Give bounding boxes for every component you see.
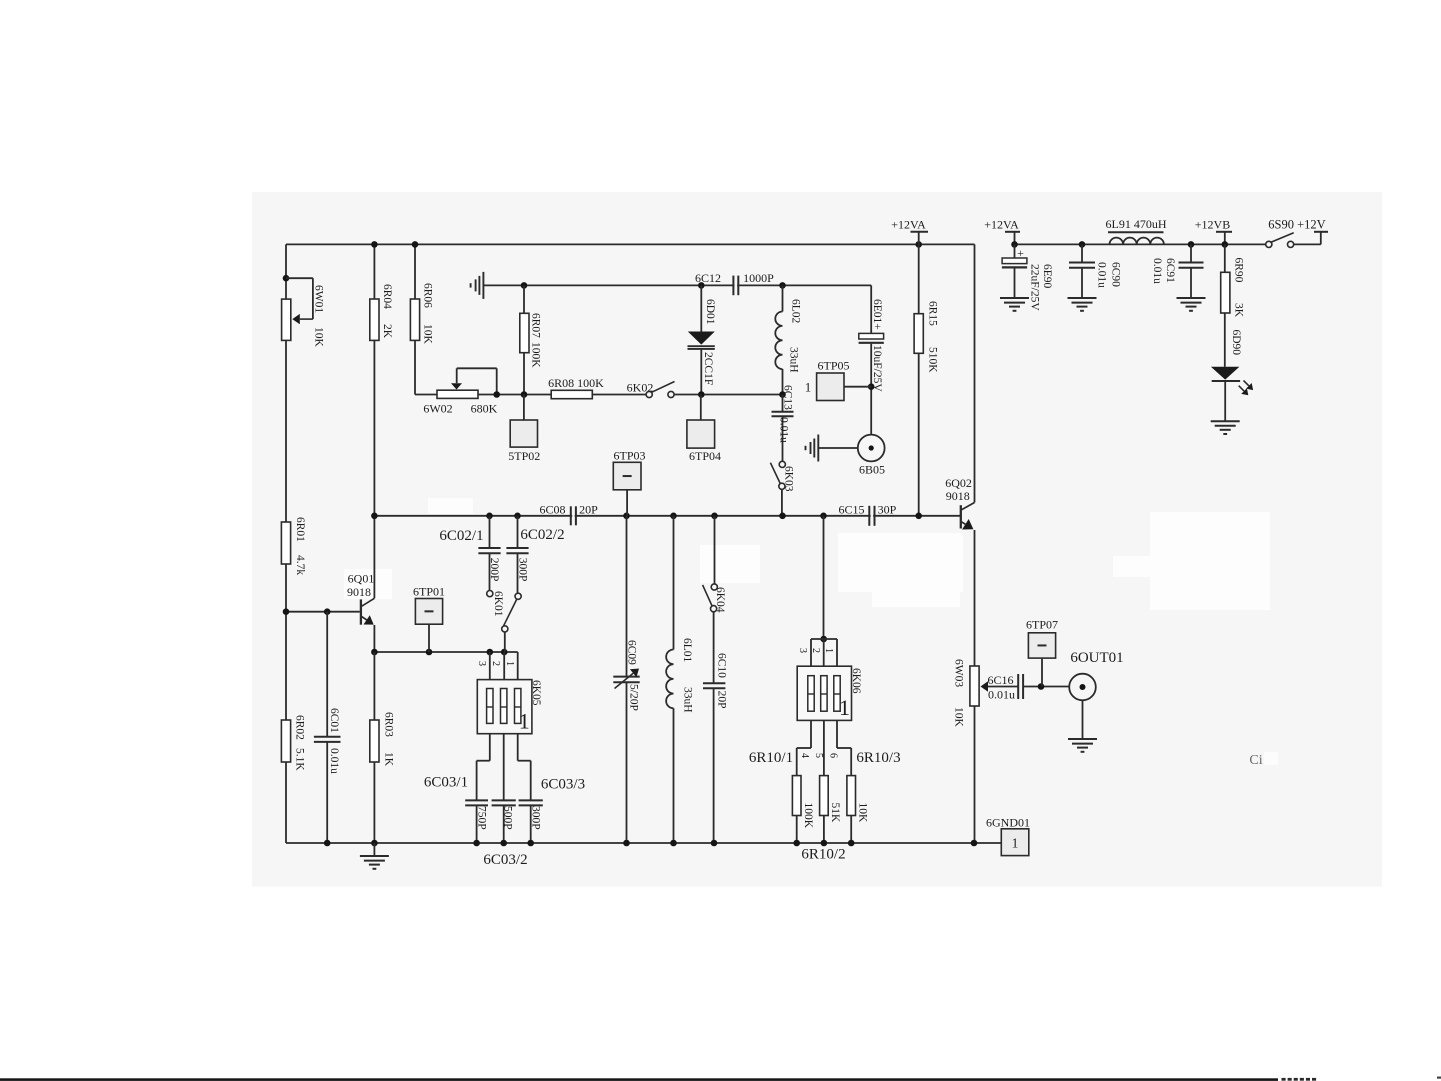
svg-text:10K: 10K	[952, 707, 964, 728]
svg-text:Ci: Ci	[1249, 753, 1262, 768]
svg-text:6R02: 6R02	[294, 715, 306, 740]
svg-text:22uF/25V: 22uF/25V	[1028, 264, 1040, 311]
svg-text:6Q01: 6Q01	[348, 572, 375, 586]
svg-text:6K01: 6K01	[492, 591, 504, 617]
svg-text:6C08: 6C08	[539, 503, 565, 517]
svg-text:6TP04: 6TP04	[689, 449, 721, 463]
svg-text:6K02: 6K02	[627, 381, 654, 395]
svg-text:0.01u: 0.01u	[988, 688, 1015, 702]
svg-text:1: 1	[823, 648, 834, 653]
svg-text:510K: 510K	[927, 347, 939, 373]
svg-text:+12VA: +12VA	[891, 218, 926, 232]
svg-text:5TP02: 5TP02	[508, 449, 540, 463]
svg-text:33uH: 33uH	[788, 347, 800, 373]
svg-text:6C13: 6C13	[782, 385, 794, 410]
svg-text:6Q02: 6Q02	[945, 476, 972, 490]
svg-text:2: 2	[810, 648, 821, 653]
svg-text:1000P: 1000P	[743, 271, 774, 285]
svg-text:6W01: 6W01	[313, 285, 325, 313]
svg-text:6C01: 6C01	[328, 708, 340, 733]
svg-text:3: 3	[476, 661, 487, 666]
svg-text:200P: 200P	[488, 558, 500, 582]
svg-text:6D01: 6D01	[704, 299, 716, 325]
svg-text:1: 1	[504, 661, 515, 666]
svg-text:6C03/3: 6C03/3	[541, 777, 585, 793]
svg-text:6TP05: 6TP05	[817, 359, 849, 373]
svg-text:33uH: 33uH	[681, 687, 693, 713]
svg-text:6TP07: 6TP07	[1026, 618, 1058, 632]
svg-text:6C03/1: 6C03/1	[424, 775, 468, 791]
svg-text:6R01: 6R01	[294, 517, 306, 542]
svg-text:0.01u: 0.01u	[778, 417, 790, 443]
svg-text:300P: 300P	[529, 806, 541, 830]
svg-text:0.01u: 0.01u	[328, 748, 340, 774]
svg-text:20P: 20P	[715, 691, 727, 709]
svg-text:6C10: 6C10	[715, 653, 727, 678]
svg-text:300P: 300P	[516, 558, 528, 582]
svg-text:6W02: 6W02	[423, 402, 452, 416]
svg-text:6E01+: 6E01+	[871, 299, 883, 330]
svg-text:6R10/2: 6R10/2	[801, 847, 845, 863]
svg-text:5: 5	[813, 753, 824, 758]
svg-text:3: 3	[797, 648, 808, 653]
svg-text:2K: 2K	[381, 324, 393, 339]
svg-text:2: 2	[490, 661, 501, 666]
svg-text:6C02/1: 6C02/1	[439, 528, 483, 544]
svg-text:6R04: 6R04	[381, 284, 393, 309]
svg-text:6: 6	[828, 753, 839, 758]
svg-text:750P: 750P	[475, 806, 487, 830]
svg-text:6K05: 6K05	[530, 680, 542, 706]
svg-text:6C91: 6C91	[1164, 258, 1176, 283]
svg-text:100K: 100K	[529, 342, 541, 368]
svg-text:6K06: 6K06	[850, 668, 862, 694]
svg-text:1: 1	[1012, 836, 1019, 851]
svg-text:6L02: 6L02	[790, 299, 802, 324]
svg-text:4: 4	[799, 753, 810, 758]
svg-text:1K: 1K	[382, 752, 394, 767]
svg-text:6R03: 6R03	[382, 712, 394, 737]
svg-text:6C15: 6C15	[838, 503, 864, 517]
svg-text:5.1K: 5.1K	[294, 748, 306, 771]
svg-text:500P: 500P	[501, 806, 513, 830]
svg-text:10K: 10K	[313, 327, 325, 348]
svg-text:1: 1	[805, 380, 812, 395]
svg-text:6TP01: 6TP01	[413, 585, 445, 599]
svg-text:6TP03: 6TP03	[613, 449, 645, 463]
svg-text:6L01: 6L01	[681, 638, 693, 663]
svg-text:0.01u: 0.01u	[1151, 258, 1163, 284]
svg-text:6S90 +12V: 6S90 +12V	[1268, 218, 1325, 232]
svg-text:6K03: 6K03	[783, 466, 795, 492]
svg-text:0.01u: 0.01u	[1096, 262, 1108, 288]
svg-text:6D90: 6D90	[1230, 330, 1242, 356]
svg-text:3K: 3K	[1233, 303, 1245, 318]
svg-text:30P: 30P	[878, 503, 897, 517]
svg-text:6R15: 6R15	[927, 301, 939, 326]
svg-text:6C12: 6C12	[695, 271, 721, 285]
svg-text:2CC1F: 2CC1F	[702, 352, 714, 385]
svg-text:1: 1	[839, 695, 850, 720]
svg-text:+12VB: +12VB	[1195, 218, 1230, 232]
svg-text:6R10/3: 6R10/3	[856, 750, 900, 766]
svg-text:9018: 9018	[946, 489, 970, 503]
svg-text:680K: 680K	[471, 402, 498, 416]
svg-text:6GND01: 6GND01	[986, 816, 1030, 830]
svg-text:10K: 10K	[422, 324, 434, 345]
svg-text:6W03: 6W03	[952, 659, 964, 687]
svg-text:6L91 470uH: 6L91 470uH	[1106, 217, 1167, 231]
svg-text:4.7k: 4.7k	[294, 555, 306, 575]
svg-text:+: +	[1017, 246, 1024, 260]
svg-text:10uF/25V: 10uF/25V	[871, 345, 883, 392]
svg-text:6R90: 6R90	[1233, 258, 1245, 283]
svg-text:6K04: 6K04	[714, 587, 726, 613]
svg-text:10K: 10K	[857, 803, 869, 824]
svg-text:6E90: 6E90	[1041, 264, 1053, 289]
svg-text:6B05: 6B05	[859, 463, 885, 477]
svg-text:6C90: 6C90	[1110, 262, 1122, 287]
svg-text:6R07: 6R07	[529, 313, 541, 338]
svg-text:+12VA: +12VA	[984, 218, 1019, 232]
svg-text:100K: 100K	[802, 803, 814, 829]
svg-text:6C16: 6C16	[987, 673, 1013, 687]
svg-text:51K: 51K	[829, 803, 841, 824]
svg-text:20P: 20P	[579, 503, 598, 517]
svg-text:6OUT01: 6OUT01	[1070, 650, 1123, 666]
svg-text:1: 1	[519, 709, 530, 734]
svg-text:9018: 9018	[347, 585, 371, 599]
svg-text:5/20P: 5/20P	[627, 684, 639, 711]
svg-text:6R06: 6R06	[422, 283, 434, 308]
svg-text:6R08 100K: 6R08 100K	[548, 376, 604, 390]
svg-text:6R10/1: 6R10/1	[749, 750, 793, 766]
svg-text:6C03/2: 6C03/2	[483, 852, 527, 868]
svg-text:6C09: 6C09	[626, 640, 638, 665]
svg-text:6C02/2: 6C02/2	[520, 527, 564, 543]
